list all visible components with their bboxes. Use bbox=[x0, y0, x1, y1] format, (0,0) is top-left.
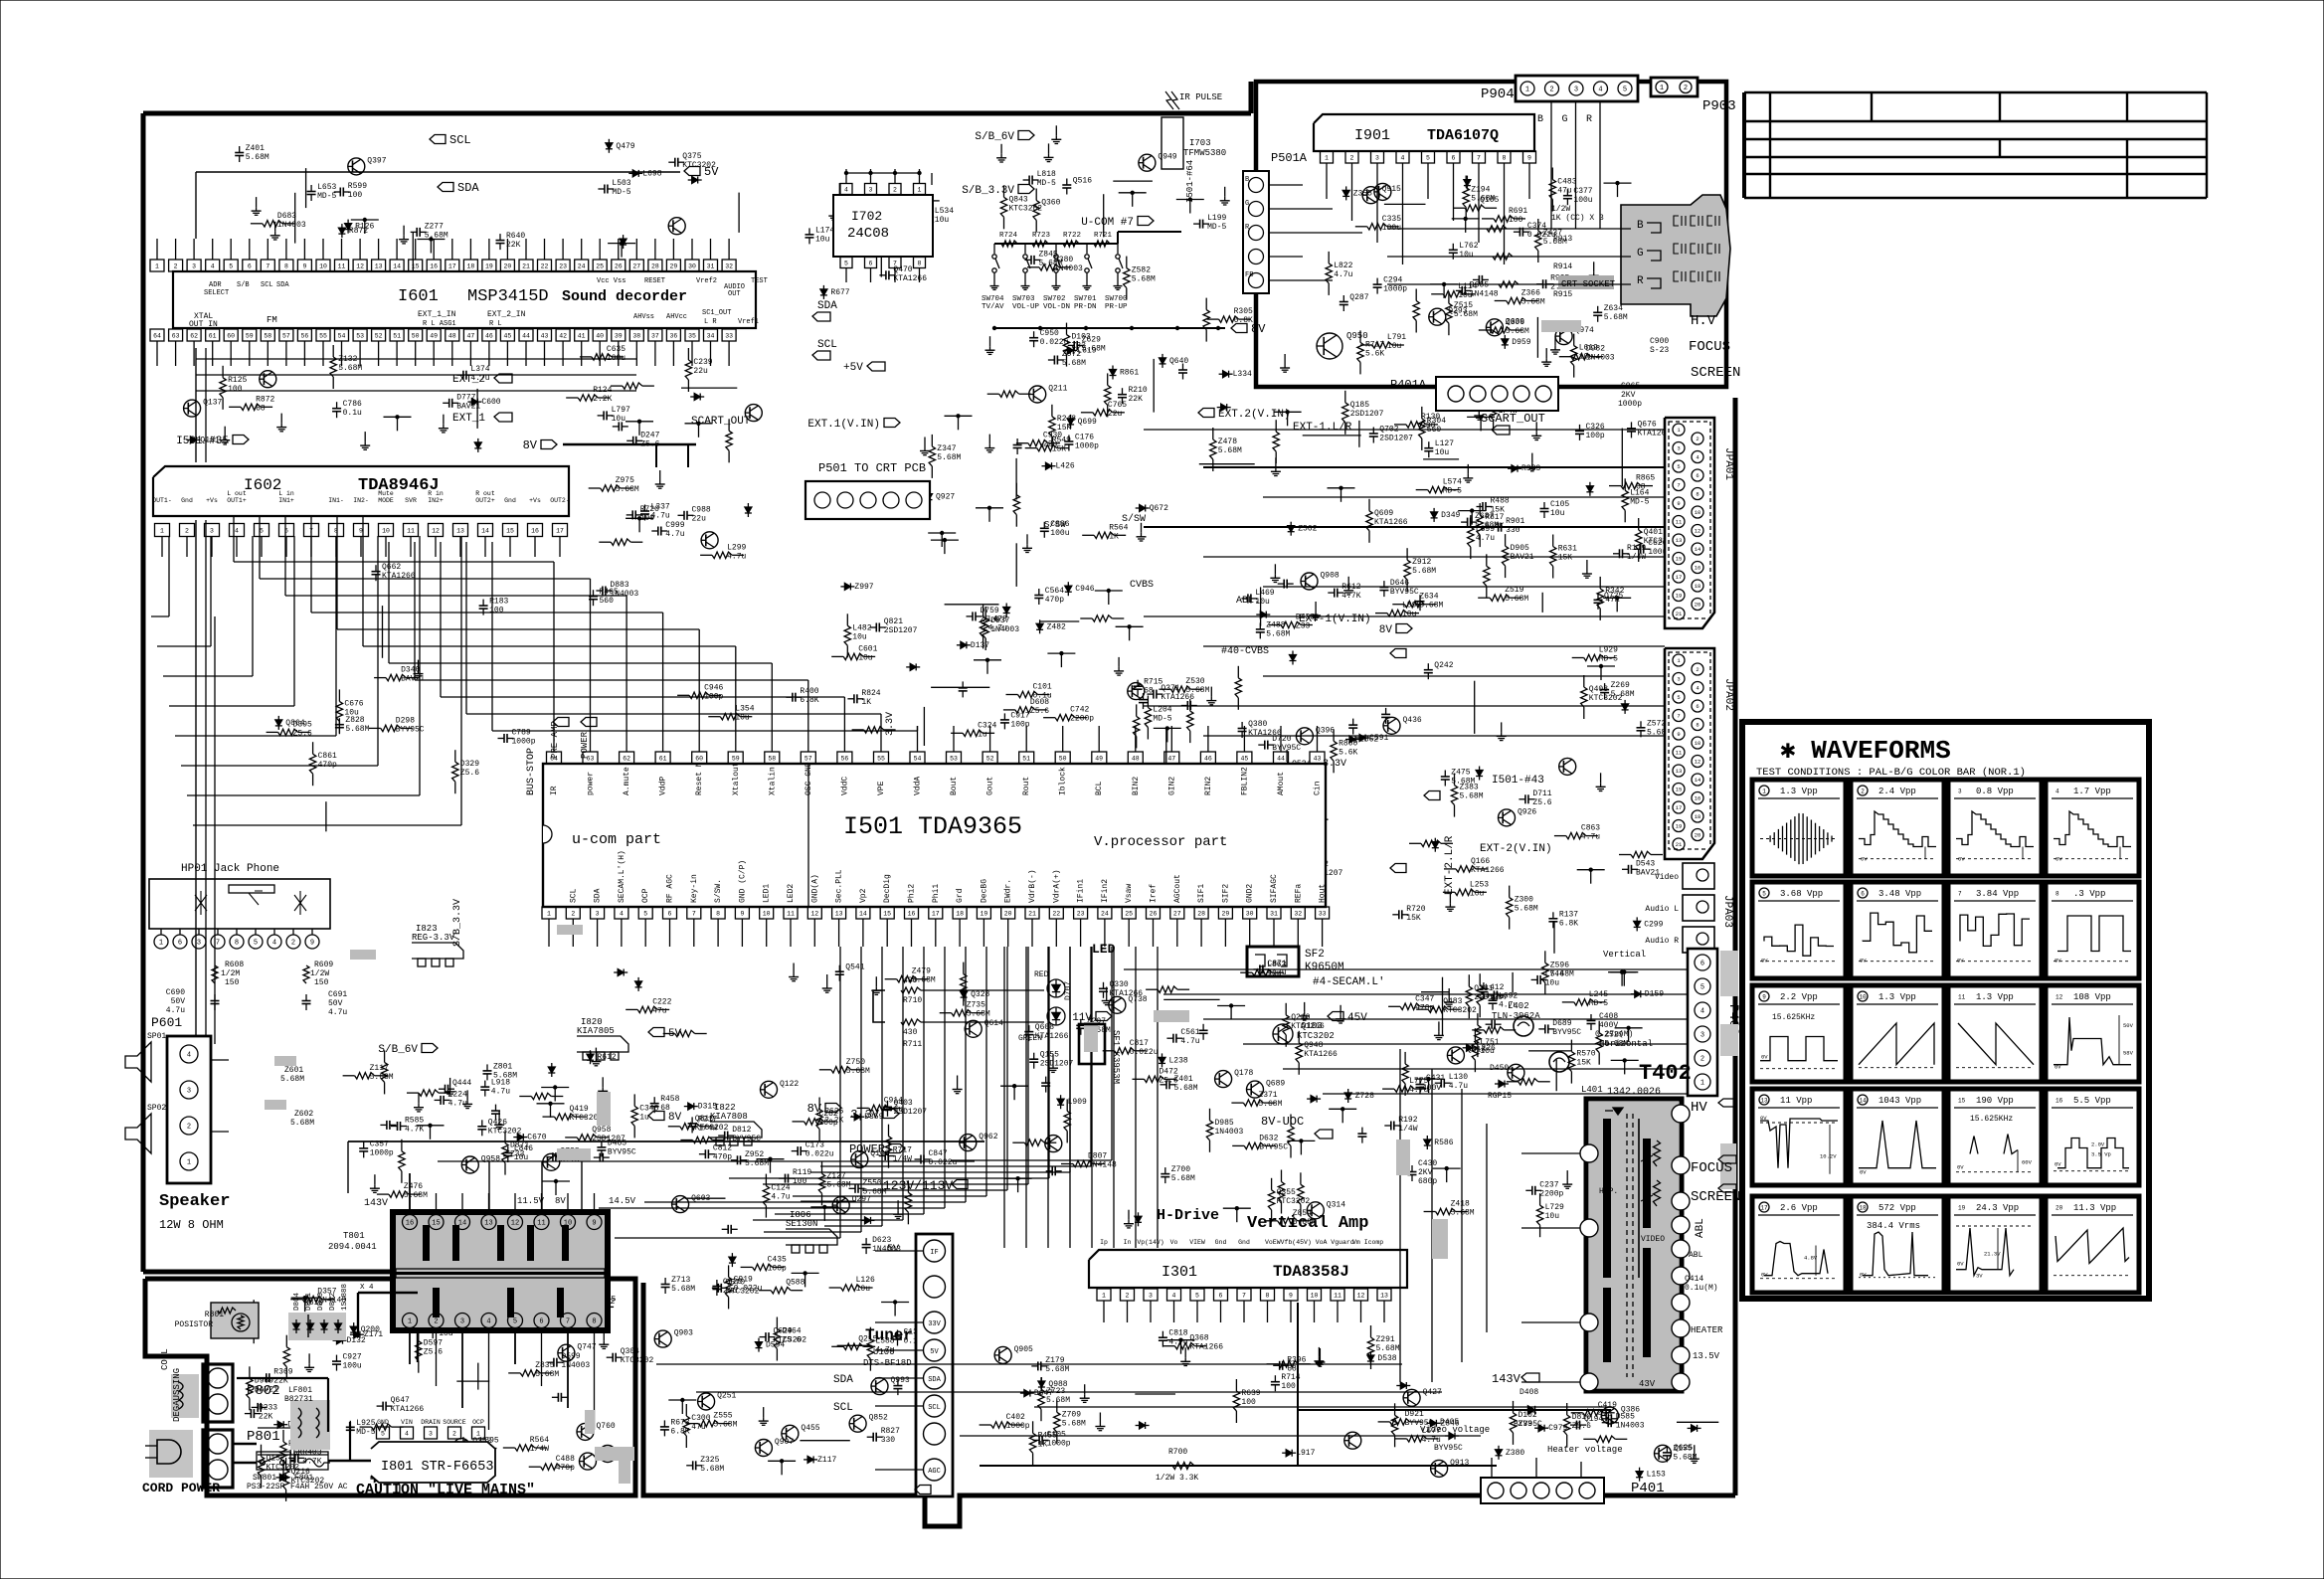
svg-text:22u: 22u bbox=[692, 514, 707, 523]
svg-text:64: 64 bbox=[153, 333, 161, 340]
svg-text:Vertical Amp: Vertical Amp bbox=[1247, 1214, 1368, 1233]
svg-text:5: 5 bbox=[381, 1431, 385, 1438]
svg-text:VdrB(-): VdrB(-) bbox=[1028, 869, 1037, 903]
svg-text:2.0V: 2.0V bbox=[2091, 1141, 2105, 1148]
svg-text:7: 7 bbox=[266, 263, 269, 270]
svg-text:POWER: POWER bbox=[580, 731, 590, 759]
svg-text:68: 68 bbox=[256, 404, 266, 413]
svg-text:5.68M: 5.68M bbox=[1505, 595, 1528, 604]
svg-text:L822: L822 bbox=[1334, 262, 1352, 270]
svg-text:L401: L401 bbox=[1581, 1085, 1603, 1095]
svg-text:L R: L R bbox=[704, 318, 717, 326]
svg-text:OCP: OCP bbox=[472, 1419, 484, 1426]
svg-text:5.6K: 5.6K bbox=[1339, 748, 1357, 757]
svg-text:T402: T402 bbox=[1639, 1061, 1692, 1086]
svg-text:4.7u: 4.7u bbox=[328, 1008, 347, 1017]
svg-text:BUS-STOP: BUS-STOP bbox=[526, 748, 537, 795]
svg-text:L299: L299 bbox=[727, 543, 746, 552]
svg-text:2SD1207: 2SD1207 bbox=[1379, 435, 1413, 443]
svg-text:R549: R549 bbox=[1052, 437, 1071, 445]
svg-text:R691: R691 bbox=[1509, 207, 1527, 216]
svg-text:31: 31 bbox=[1270, 911, 1278, 918]
svg-text:16: 16 bbox=[430, 263, 438, 270]
svg-text:22K: 22K bbox=[1129, 395, 1144, 404]
svg-text:POSISTOR: POSISTOR bbox=[175, 1320, 214, 1329]
svg-text:10u: 10u bbox=[858, 653, 873, 662]
svg-text:Z401: Z401 bbox=[1174, 1075, 1193, 1084]
svg-text:Ip: Ip bbox=[1100, 1239, 1108, 1246]
svg-text:9: 9 bbox=[359, 528, 363, 535]
svg-text:I703: I703 bbox=[1189, 138, 1211, 148]
svg-text:L895: L895 bbox=[1402, 602, 1421, 611]
svg-text:15K: 15K bbox=[1052, 445, 1067, 454]
svg-text:D137: D137 bbox=[971, 641, 989, 650]
svg-text:P601: P601 bbox=[151, 1015, 182, 1030]
svg-text:14: 14 bbox=[458, 1220, 466, 1228]
svg-text:Z347: Z347 bbox=[937, 444, 956, 453]
svg-text:1N4003: 1N4003 bbox=[561, 1361, 590, 1370]
svg-text:1.3 Vpp: 1.3 Vpp bbox=[1780, 787, 1818, 796]
svg-text:0V: 0V bbox=[1957, 1164, 1964, 1171]
svg-text:5: 5 bbox=[260, 528, 264, 535]
svg-text:P501A: P501A bbox=[1271, 151, 1308, 165]
svg-text:VIEW: VIEW bbox=[1189, 1239, 1205, 1246]
svg-text:Xtalout: Xtalout bbox=[732, 762, 741, 795]
svg-text:24: 24 bbox=[1101, 911, 1109, 918]
svg-text:Z300: Z300 bbox=[1515, 896, 1533, 905]
svg-text:D329: D329 bbox=[460, 760, 479, 769]
svg-text:Q287: Q287 bbox=[1349, 293, 1368, 302]
svg-text:Q629: Q629 bbox=[774, 1327, 793, 1336]
svg-text:D802: D802 bbox=[329, 1293, 337, 1311]
svg-text:EXT.2(V.IN): EXT.2(V.IN) bbox=[1218, 409, 1291, 421]
svg-text:G: G bbox=[1245, 200, 1249, 208]
svg-text:15K: 15K bbox=[1057, 424, 1072, 433]
svg-text:C786: C786 bbox=[343, 400, 362, 409]
svg-text:D689: D689 bbox=[1552, 1019, 1571, 1028]
svg-text:Q368: Q368 bbox=[1189, 1334, 1208, 1343]
svg-text:RIN2: RIN2 bbox=[1204, 777, 1213, 795]
svg-text:VoEWVfb(45V) VoA Vguard: VoEWVfb(45V) VoA Vguard bbox=[1265, 1239, 1354, 1246]
svg-text:5: 5 bbox=[1677, 463, 1680, 470]
svg-text:C435: C435 bbox=[768, 1255, 787, 1264]
svg-text:5: 5 bbox=[1195, 1293, 1199, 1300]
svg-text:100: 100 bbox=[489, 607, 504, 615]
svg-text:1000p: 1000p bbox=[1006, 1422, 1030, 1431]
svg-text:VIDEO: VIDEO bbox=[1641, 1235, 1665, 1244]
svg-text:49: 49 bbox=[1095, 756, 1103, 763]
svg-text:Q927: Q927 bbox=[936, 493, 955, 502]
svg-text:4: 4 bbox=[1598, 87, 1602, 94]
svg-text:150: 150 bbox=[314, 978, 329, 987]
svg-text:L374: L374 bbox=[470, 365, 489, 374]
svg-text:Q419: Q419 bbox=[570, 1105, 589, 1114]
svg-text:KIA7805: KIA7805 bbox=[577, 1026, 615, 1036]
svg-text:68: 68 bbox=[1287, 1364, 1297, 1373]
svg-text:C124: C124 bbox=[771, 1184, 790, 1193]
svg-text:100: 100 bbox=[1241, 1398, 1256, 1407]
svg-text:50: 50 bbox=[1059, 756, 1067, 763]
svg-text:B: B bbox=[1245, 176, 1249, 184]
svg-text:5.68M: 5.68M bbox=[1506, 327, 1529, 336]
svg-text:KTA1266: KTA1266 bbox=[1374, 518, 1408, 527]
svg-text:8V: 8V bbox=[668, 1112, 682, 1124]
svg-text:Z750: Z750 bbox=[846, 1058, 865, 1067]
svg-text:C105: C105 bbox=[1550, 500, 1569, 509]
svg-text:MD-5: MD-5 bbox=[1599, 655, 1618, 664]
svg-text:H.P.: H.P. bbox=[1599, 1187, 1618, 1196]
svg-text:Q639: Q639 bbox=[1506, 317, 1524, 326]
svg-text:5.68M: 5.68M bbox=[1062, 359, 1086, 368]
svg-text:.3 Vpp: .3 Vpp bbox=[2073, 889, 2105, 899]
svg-text:Q122: Q122 bbox=[780, 1080, 799, 1089]
svg-text:RF AGC: RF AGC bbox=[666, 874, 675, 903]
svg-text:R210: R210 bbox=[1129, 386, 1148, 395]
svg-text:0V: 0V bbox=[2055, 1161, 2061, 1168]
svg-text:Q948: Q948 bbox=[1304, 1041, 1323, 1050]
svg-text:1K: 1K bbox=[1109, 532, 1119, 541]
svg-text:15: 15 bbox=[1676, 787, 1683, 793]
svg-text:S/B_6V: S/B_6V bbox=[975, 131, 1014, 143]
svg-text:17: 17 bbox=[556, 528, 564, 535]
svg-text:C946: C946 bbox=[704, 683, 723, 692]
svg-text:IN1-: IN1- bbox=[328, 497, 344, 504]
svg-text:22: 22 bbox=[541, 263, 549, 270]
svg-text:8: 8 bbox=[2056, 891, 2059, 898]
svg-text:Z488: Z488 bbox=[1266, 620, 1285, 629]
svg-text:30: 30 bbox=[688, 263, 696, 270]
svg-text:L791: L791 bbox=[1387, 333, 1406, 342]
svg-text:2: 2 bbox=[187, 1124, 191, 1132]
svg-text:2SD1207: 2SD1207 bbox=[884, 626, 918, 635]
svg-text:Q760: Q760 bbox=[597, 1422, 616, 1431]
svg-text:1: 1 bbox=[1660, 85, 1664, 92]
svg-text:Q625: Q625 bbox=[1674, 1444, 1693, 1453]
svg-text:29: 29 bbox=[669, 263, 677, 270]
svg-text:VdrA(+): VdrA(+) bbox=[1052, 869, 1061, 903]
svg-text:In: In bbox=[1124, 1239, 1132, 1246]
svg-text:3: 3 bbox=[596, 911, 600, 918]
svg-text:1/2W 3.3K: 1/2W 3.3K bbox=[1156, 1474, 1198, 1483]
svg-text:RGP15: RGP15 bbox=[1488, 1092, 1512, 1101]
svg-text:20: 20 bbox=[1695, 832, 1701, 839]
svg-text:Z582: Z582 bbox=[1132, 266, 1151, 275]
svg-text:SE130N: SE130N bbox=[786, 1219, 817, 1229]
svg-text:12: 12 bbox=[1695, 528, 1701, 535]
svg-text:19: 19 bbox=[1676, 593, 1683, 600]
svg-text:C335: C335 bbox=[1382, 215, 1401, 224]
svg-text:SDA: SDA bbox=[457, 181, 479, 195]
svg-text:P802: P802 bbox=[247, 1383, 280, 1399]
svg-text:R612: R612 bbox=[598, 1053, 617, 1062]
svg-text:KTA1266: KTA1266 bbox=[893, 274, 927, 283]
svg-text:8: 8 bbox=[235, 940, 239, 948]
svg-text:1: 1 bbox=[160, 528, 164, 535]
svg-text:5: 5 bbox=[1762, 891, 1766, 898]
svg-text:D538: D538 bbox=[1377, 1354, 1396, 1363]
svg-text:20: 20 bbox=[503, 263, 511, 270]
svg-text:5.68M: 5.68M bbox=[280, 1075, 304, 1084]
svg-text:11V: 11V bbox=[1072, 1012, 1092, 1024]
svg-text:2: 2 bbox=[434, 1318, 438, 1326]
svg-text:R914: R914 bbox=[1553, 263, 1572, 271]
svg-text:SIF2: SIF2 bbox=[1221, 884, 1230, 903]
svg-text:5.68M: 5.68M bbox=[671, 1285, 695, 1294]
svg-text:4: 4 bbox=[235, 528, 239, 535]
svg-text:Q908: Q908 bbox=[1321, 572, 1340, 581]
svg-text:C999: C999 bbox=[665, 521, 684, 530]
svg-text:Z5.6: Z5.6 bbox=[1572, 1422, 1591, 1431]
svg-text:R631: R631 bbox=[1558, 545, 1577, 554]
svg-text:L729: L729 bbox=[1545, 1203, 1564, 1212]
svg-text:4: 4 bbox=[486, 1318, 490, 1326]
svg-text:D804: D804 bbox=[293, 1292, 301, 1311]
svg-text:21: 21 bbox=[1676, 841, 1683, 848]
svg-text:0V: 0V bbox=[1860, 1272, 1867, 1279]
svg-text:Q152: Q152 bbox=[267, 1455, 285, 1464]
svg-text:3.68 Vpp: 3.68 Vpp bbox=[1780, 889, 1823, 899]
svg-text:D405: D405 bbox=[1440, 1418, 1459, 1427]
svg-text:51: 51 bbox=[393, 333, 401, 340]
svg-text:20: 20 bbox=[1695, 602, 1701, 609]
svg-text:2: 2 bbox=[1549, 87, 1553, 94]
svg-text:L862: L862 bbox=[1359, 736, 1378, 745]
svg-text:Q608: Q608 bbox=[1035, 1023, 1054, 1032]
svg-text:59: 59 bbox=[246, 333, 254, 340]
svg-text:C861: C861 bbox=[318, 752, 337, 761]
svg-text:1N4003: 1N4003 bbox=[1215, 1128, 1244, 1137]
svg-text:KTA1266: KTA1266 bbox=[391, 1405, 425, 1414]
svg-text:IR: IR bbox=[550, 786, 559, 795]
svg-text:DRAIN: DRAIN bbox=[421, 1419, 441, 1426]
svg-text:Reset N: Reset N bbox=[695, 762, 704, 795]
svg-text:Q396: Q396 bbox=[1316, 726, 1335, 735]
svg-text:S/SW: S/SW bbox=[1044, 520, 1066, 530]
svg-text:2.2 Vpp: 2.2 Vpp bbox=[1780, 992, 1818, 1002]
svg-text:L503: L503 bbox=[612, 179, 630, 188]
svg-text:Vsaw: Vsaw bbox=[1125, 884, 1134, 903]
svg-text:C105: C105 bbox=[1047, 1430, 1066, 1439]
svg-text:SW704: SW704 bbox=[982, 295, 1004, 303]
svg-text:KTC3202: KTC3202 bbox=[1443, 1006, 1477, 1015]
svg-text:Vp(14V): Vp(14V) bbox=[1137, 1239, 1163, 1246]
svg-text:7: 7 bbox=[1958, 891, 1962, 898]
svg-text:7: 7 bbox=[216, 940, 220, 948]
svg-text:Z482: Z482 bbox=[1047, 622, 1066, 631]
svg-text:5.68M: 5.68M bbox=[425, 231, 448, 240]
svg-text:5.68M: 5.68M bbox=[1673, 1453, 1697, 1462]
svg-text:R913: R913 bbox=[1553, 235, 1572, 244]
svg-text:10u: 10u bbox=[1459, 251, 1474, 260]
svg-text:3.5 Vp: 3.5 Vp bbox=[2091, 1151, 2111, 1158]
svg-text:DEGAUSSING: DEGAUSSING bbox=[172, 1368, 182, 1422]
svg-text:45: 45 bbox=[1240, 756, 1248, 763]
svg-text:Horizontal: Horizontal bbox=[1599, 1039, 1653, 1049]
svg-text:Q588: Q588 bbox=[786, 1279, 804, 1288]
svg-text:6: 6 bbox=[539, 1318, 543, 1326]
svg-text:Q905: Q905 bbox=[1014, 1345, 1033, 1354]
svg-text:1K (CC) X 3: 1K (CC) X 3 bbox=[1551, 214, 1604, 223]
svg-text:9: 9 bbox=[1677, 500, 1680, 507]
svg-text:10.2V: 10.2V bbox=[1820, 1153, 1837, 1160]
svg-text:9: 9 bbox=[1527, 155, 1531, 162]
svg-text:20: 20 bbox=[1004, 911, 1012, 918]
svg-text:OUT2-: OUT2- bbox=[550, 497, 570, 504]
svg-text:1043 Vpp: 1043 Vpp bbox=[1878, 1096, 1921, 1106]
svg-text:52: 52 bbox=[986, 756, 994, 763]
svg-text:100: 100 bbox=[1281, 1382, 1296, 1391]
svg-text:R out: R out bbox=[475, 490, 495, 497]
svg-text:4: 4 bbox=[187, 1052, 191, 1060]
svg-text:14: 14 bbox=[1695, 777, 1701, 784]
svg-text:BCL: BCL bbox=[1095, 781, 1104, 795]
svg-text:MD-5: MD-5 bbox=[612, 188, 630, 197]
svg-text:47u: 47u bbox=[652, 1006, 667, 1015]
svg-text:11.3 Vpp: 11.3 Vpp bbox=[2073, 1203, 2116, 1213]
svg-text:Z401: Z401 bbox=[246, 144, 265, 153]
svg-text:I501-#35: I501-#35 bbox=[176, 436, 229, 447]
svg-text:R722: R722 bbox=[1063, 232, 1081, 240]
svg-text:5.68M: 5.68M bbox=[846, 1067, 870, 1076]
svg-text:11: 11 bbox=[407, 528, 415, 535]
svg-text:PR-DN: PR-DN bbox=[1074, 303, 1097, 311]
svg-text:BYV95C: BYV95C bbox=[1259, 1142, 1288, 1151]
svg-text:SF2: SF2 bbox=[1305, 949, 1325, 961]
svg-text:KTA1266: KTA1266 bbox=[1189, 1343, 1223, 1352]
svg-text:2: 2 bbox=[571, 911, 575, 918]
svg-text:C946: C946 bbox=[1075, 585, 1094, 594]
svg-text:32: 32 bbox=[725, 263, 733, 270]
svg-text:I901: I901 bbox=[1354, 127, 1390, 144]
svg-text:2.4 Vpp: 2.4 Vpp bbox=[1878, 787, 1916, 796]
svg-text:L846: L846 bbox=[514, 1144, 533, 1153]
svg-text:R872: R872 bbox=[349, 227, 368, 236]
svg-text:Q541: Q541 bbox=[845, 964, 864, 972]
svg-text:U-COM #7: U-COM #7 bbox=[1081, 217, 1134, 229]
svg-text:15.625KHz: 15.625KHz bbox=[1970, 1115, 2013, 1124]
svg-text:2: 2 bbox=[452, 1431, 456, 1438]
svg-text:Q958: Q958 bbox=[592, 1126, 611, 1135]
svg-text:L478: L478 bbox=[988, 614, 1007, 623]
svg-text:26: 26 bbox=[1150, 911, 1158, 918]
svg-text:10: 10 bbox=[1695, 740, 1701, 747]
svg-text:3: 3 bbox=[197, 940, 201, 948]
svg-text:5.68M: 5.68M bbox=[1515, 905, 1538, 914]
svg-text:R720: R720 bbox=[1406, 905, 1425, 914]
svg-text:Video: Video bbox=[1655, 873, 1679, 882]
svg-text:R721: R721 bbox=[1094, 232, 1113, 240]
svg-text:EWdr.: EWdr. bbox=[1004, 879, 1013, 903]
svg-text:6: 6 bbox=[1861, 891, 1865, 898]
svg-text:EXT_1_IN: EXT_1_IN bbox=[418, 310, 456, 319]
svg-text:Q355: Q355 bbox=[1277, 1188, 1296, 1197]
svg-text:3: 3 bbox=[1375, 155, 1379, 162]
svg-text:3: 3 bbox=[1677, 676, 1680, 683]
svg-text:SW700: SW700 bbox=[1105, 295, 1128, 303]
svg-text:SDA: SDA bbox=[833, 1374, 853, 1386]
svg-text:LF801: LF801 bbox=[288, 1386, 312, 1395]
svg-text:BYV95C: BYV95C bbox=[1552, 1028, 1581, 1037]
svg-text:8V: 8V bbox=[1379, 624, 1393, 636]
svg-text:SECAM.L'(H): SECAM.L'(H) bbox=[618, 850, 626, 903]
svg-text:5.68M: 5.68M bbox=[1171, 1174, 1195, 1183]
svg-text:Q105: Q105 bbox=[1480, 196, 1499, 205]
svg-text:1: 1 bbox=[187, 1159, 191, 1167]
svg-text:IN1+: IN1+ bbox=[278, 497, 294, 504]
svg-text:4.7u: 4.7u bbox=[771, 1193, 790, 1202]
svg-text:L653: L653 bbox=[317, 183, 336, 192]
svg-text:Z5.6: Z5.6 bbox=[460, 769, 479, 778]
svg-text:Q380: Q380 bbox=[1248, 720, 1267, 729]
svg-text:45V: 45V bbox=[1347, 1012, 1367, 1024]
svg-text:u-com part: u-com part bbox=[572, 831, 661, 848]
svg-text:4.7u: 4.7u bbox=[651, 512, 670, 521]
svg-text:31: 31 bbox=[707, 263, 715, 270]
svg-text:2200p: 2200p bbox=[1539, 1189, 1563, 1198]
svg-text:1.7 Vpp: 1.7 Vpp bbox=[2073, 787, 2111, 796]
svg-text:AMout: AMout bbox=[1277, 772, 1286, 795]
svg-text:26: 26 bbox=[615, 263, 623, 270]
svg-text:2: 2 bbox=[174, 263, 178, 270]
svg-text:0.022u: 0.022u bbox=[805, 1150, 834, 1159]
svg-text:108 Vpp: 108 Vpp bbox=[2073, 992, 2111, 1002]
svg-text:8: 8 bbox=[284, 263, 288, 270]
svg-text:2.6 Vpp: 2.6 Vpp bbox=[1780, 1203, 1818, 1213]
svg-text:16: 16 bbox=[1695, 795, 1701, 802]
svg-text:AGCout: AGCout bbox=[1173, 874, 1182, 903]
svg-text:Z687: Z687 bbox=[1475, 512, 1494, 521]
svg-text:13: 13 bbox=[1380, 1293, 1388, 1300]
svg-text:0V: 0V bbox=[1957, 1261, 1964, 1268]
svg-text:3: 3 bbox=[460, 1318, 464, 1326]
svg-text:12: 12 bbox=[1357, 1293, 1365, 1300]
svg-text:C979: C979 bbox=[1548, 1424, 1567, 1433]
svg-text:3.3V: 3.3V bbox=[885, 712, 896, 736]
svg-text:22: 22 bbox=[1052, 911, 1060, 918]
svg-text:MD-5: MD-5 bbox=[1589, 999, 1608, 1008]
svg-text:4.7u: 4.7u bbox=[727, 552, 746, 561]
svg-text:Z366: Z366 bbox=[1521, 289, 1540, 298]
svg-text:D597: D597 bbox=[424, 1339, 443, 1348]
svg-text:TEST CONDITIONS : PAL-B/G COLO: TEST CONDITIONS : PAL-B/G COLOR BAR (NOR… bbox=[1756, 767, 2026, 779]
svg-text:10u: 10u bbox=[1435, 448, 1450, 457]
svg-text:Q242: Q242 bbox=[1434, 661, 1453, 670]
svg-text:D985: D985 bbox=[1215, 1119, 1234, 1128]
svg-text:5.68M: 5.68M bbox=[1460, 792, 1484, 801]
svg-text:430: 430 bbox=[903, 976, 918, 985]
svg-text:TDA6107Q: TDA6107Q bbox=[1427, 127, 1499, 144]
svg-text:Q609: Q609 bbox=[1374, 509, 1393, 518]
svg-text:5.68M: 5.68M bbox=[1174, 1084, 1198, 1093]
svg-text:0V: 0V bbox=[1860, 958, 1867, 965]
svg-text:8V: 8V bbox=[555, 1196, 566, 1206]
svg-text:CVBS: CVBS bbox=[1130, 580, 1154, 591]
svg-text:Q436: Q436 bbox=[1403, 716, 1422, 725]
svg-text:14: 14 bbox=[1695, 546, 1701, 553]
svg-text:D450: D450 bbox=[1490, 1064, 1509, 1073]
svg-text:1/4W: 1/4W bbox=[530, 1445, 549, 1454]
svg-text:I602: I602 bbox=[244, 476, 281, 494]
svg-text:14: 14 bbox=[1859, 1098, 1867, 1105]
svg-text:ABL.: ABL. bbox=[1236, 596, 1260, 607]
svg-text:1000p: 1000p bbox=[512, 738, 536, 747]
svg-text:Q251: Q251 bbox=[717, 1392, 736, 1401]
svg-text:4.7u: 4.7u bbox=[491, 1088, 510, 1097]
svg-text:8: 8 bbox=[918, 261, 922, 267]
svg-text:HV: HV bbox=[1691, 1100, 1707, 1116]
svg-text:✱ WAVEFORMS: ✱ WAVEFORMS bbox=[1780, 736, 1951, 766]
svg-text:Z479: Z479 bbox=[912, 967, 931, 976]
